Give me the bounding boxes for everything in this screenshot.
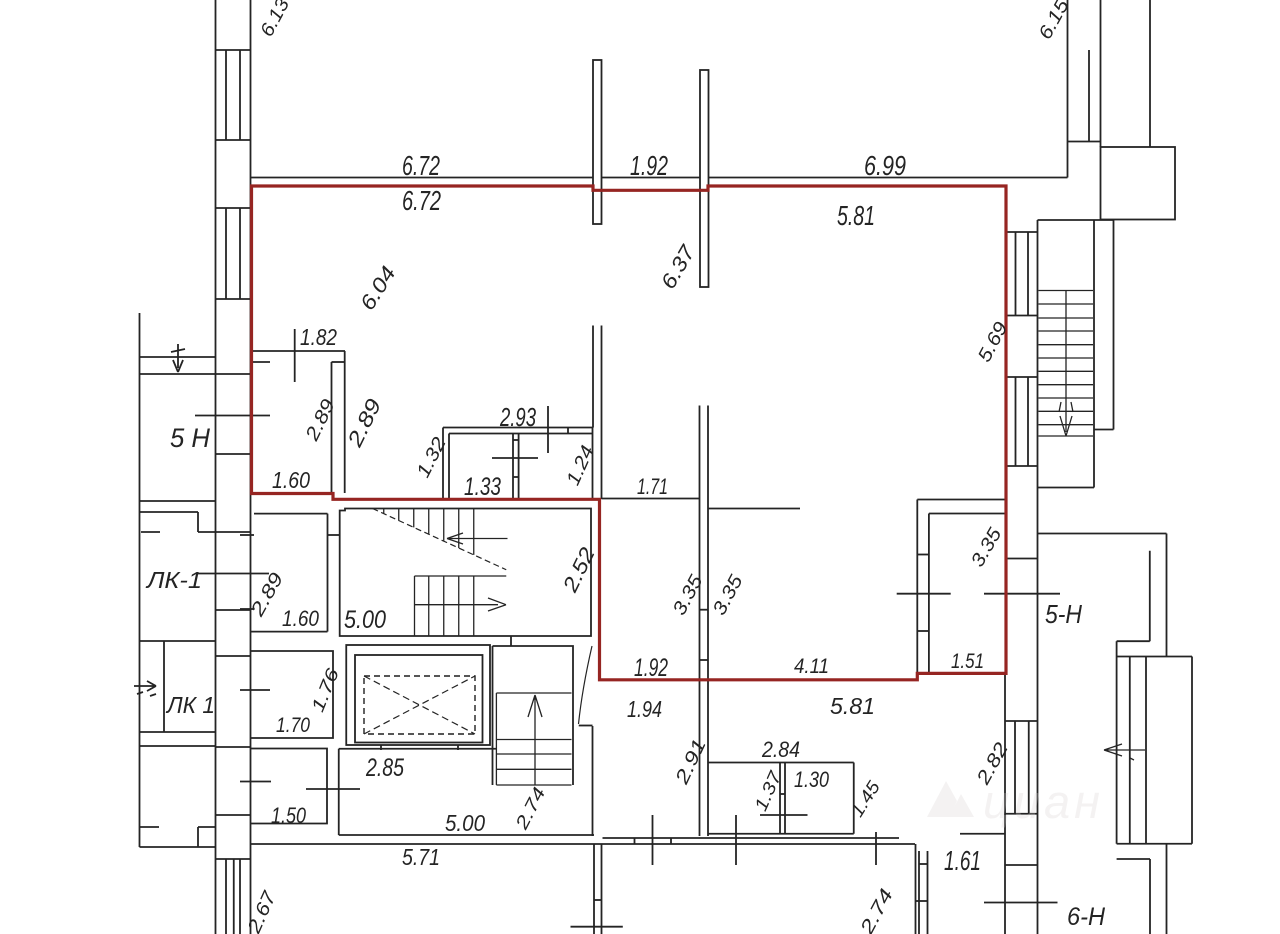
- LK-1 wall y512: [140, 511, 199, 513]
- vestibule east wall: [327, 514, 329, 632]
- outer wall x1067.5 top: [1067, 0, 1069, 178]
- wall cross joint y454: [216, 453, 251, 455]
- window W2 pane lines: [225, 208, 227, 299]
- stair lower arrow: [415, 598, 507, 611]
- room 1.82 east wall cap: [332, 361, 345, 363]
- svg-text:циан: циан: [983, 775, 1104, 828]
- wall x1150 top: [1149, 0, 1151, 147]
- svg-text:2.93: 2.93: [499, 402, 536, 432]
- dim tick x736: [735, 815, 737, 865]
- wall cross joint y656: [216, 655, 251, 657]
- door leaf line at 5-N entry: [195, 415, 270, 417]
- svg-text:6-Н: 6-Н: [1067, 903, 1106, 931]
- vestibule ticks: [240, 534, 254, 536]
- top wall segment C: [709, 177, 1068, 179]
- stair1 center rail with down arrow: [1059, 291, 1073, 437]
- partition pair x708: [707, 406, 709, 837]
- svg-text:5.81: 5.81: [830, 693, 875, 719]
- LK-1 leader line: [197, 573, 269, 575]
- stair1 left wall x1037.5: [1037, 220, 1039, 934]
- stair room outline: [340, 509, 591, 637]
- window RA caps: [1005, 231, 1038, 233]
- svg-text:2.84: 2.84: [761, 737, 800, 762]
- stair lower flight risers: [414, 576, 416, 636]
- wall bend x915.5: [915, 844, 917, 934]
- svg-text:4.11: 4.11: [794, 655, 829, 678]
- stair2 step y859: [1117, 858, 1150, 860]
- elevator outer box: [346, 645, 490, 745]
- elevator dashed cabin: [364, 676, 475, 734]
- svg-text:2.85: 2.85: [365, 754, 404, 782]
- wall pair x919/x927.5 bottom: [918, 851, 920, 934]
- right wall tick y558.5: [1005, 558, 1038, 560]
- LK-1 wall y746: [140, 745, 216, 747]
- dim leader y593.7: [897, 593, 951, 595]
- wall y498.5 west segment: [602, 498, 700, 500]
- small rooms east wall: [853, 763, 855, 834]
- wall pair x593 upper: [592, 326, 594, 428]
- elevator dashed diagonal 2: [364, 676, 475, 734]
- stair2 verticals: [1116, 657, 1118, 844]
- stair1 bottom cap y487.5: [1038, 487, 1095, 489]
- LK-1 wall y732: [140, 731, 216, 733]
- leader y833.75: [960, 833, 1005, 835]
- window RC panes: [1014, 721, 1016, 814]
- svg-text:6.99: 6.99: [864, 150, 906, 181]
- stair1 right wall x1094: [1093, 220, 1095, 488]
- partition stub P1: [593, 60, 602, 224]
- svg-text:1.82: 1.82: [300, 324, 337, 350]
- wall y656.5: [1117, 656, 1192, 658]
- cap y429.5: [1094, 429, 1114, 431]
- svg-text:1.70: 1.70: [276, 714, 310, 737]
- wall left inner edge: [250, 0, 252, 934]
- LK-1 tick y827: [140, 826, 160, 828]
- top wall segment B: [602, 177, 701, 179]
- room 2.85 bottom: [339, 834, 594, 836]
- wall left outer edge: [215, 0, 217, 934]
- elevator dashed diagonal 1: [364, 676, 475, 734]
- small rooms bottom: [708, 833, 854, 835]
- wall cross joint y815: [216, 814, 251, 816]
- stair3 inner left: [495, 693, 497, 785]
- leader y902.5: [984, 902, 1058, 904]
- wall cross joint y610: [216, 609, 251, 611]
- svg-text:5-Н: 5-Н: [1045, 599, 1082, 629]
- wall pair x594/x601.5 bottom: [593, 844, 595, 934]
- bottom wall joints: [634, 838, 636, 844]
- stair3 rail with up arrow: [528, 695, 542, 785]
- corridor wall y357: [140, 356, 216, 358]
- svg-text:5.71: 5.71: [402, 844, 440, 870]
- stair3 treads: [496, 692, 571, 694]
- wall x1089 top: [1088, 50, 1090, 142]
- wall x1116.6 upper: [1116, 641, 1118, 656]
- right wall inner edge lower part: [1004, 673, 1006, 934]
- stair1 top cap y220: [1038, 219, 1114, 221]
- window RB panes: [1015, 377, 1017, 466]
- stair lower flight top edge: [415, 575, 507, 577]
- LK-1 step bottom: [197, 827, 199, 847]
- bathroom west wall inner: [448, 434, 450, 500]
- entry arrow down: [171, 344, 185, 372]
- svg-text:5 Н: 5 Н: [170, 423, 210, 453]
- dim tick 2.93: [547, 406, 549, 453]
- vestibule bottom: [251, 631, 328, 633]
- wall pair x601.5 upper: [601, 326, 603, 500]
- svg-text:1.50: 1.50: [271, 803, 307, 828]
- room 1.51 west wall: [916, 500, 918, 674]
- room 1.51 outer top: [917, 499, 1005, 501]
- window W1 top cap: [216, 49, 251, 51]
- window W1 pane lines: [225, 50, 227, 140]
- room 1.50 outline: [251, 749, 327, 824]
- vestibule top: [254, 513, 328, 515]
- window RB caps: [1005, 376, 1038, 378]
- room 1.51 inner top: [929, 513, 1005, 515]
- wall y508.5 segment: [709, 508, 801, 510]
- stair2 bottom y843.75: [1117, 843, 1192, 845]
- stair3 outline: [493, 646, 574, 785]
- room 1.51 ticks: [917, 554, 929, 556]
- partition stub P2: [700, 70, 709, 287]
- bathroom inner top: [449, 433, 593, 435]
- room 1.82 east wall outer: [344, 351, 346, 493]
- LK-1 wall y641: [140, 640, 216, 642]
- bathroom east wall: [592, 428, 594, 500]
- bathroom west wall outer: [442, 428, 444, 500]
- leader y781.5: [240, 781, 271, 783]
- wall x1100.5 top: [1100, 0, 1102, 147]
- room 5-N west wall: [139, 313, 141, 847]
- svg-text:6.72: 6.72: [402, 150, 440, 181]
- room 2.85 east cap: [579, 725, 593, 727]
- svg-text:ЛК 1: ЛК 1: [165, 692, 215, 718]
- door arc: [579, 646, 593, 724]
- stair2 wall x1166.5 bottom: [1166, 844, 1168, 934]
- wall x1166.5: [1166, 534, 1168, 657]
- svg-text:6.72: 6.72: [402, 185, 441, 216]
- bathroom mid wall ticks: [513, 439, 519, 441]
- LK-1 divider x164: [163, 641, 165, 732]
- bottom wall y844: [251, 843, 915, 845]
- watermark logo: [927, 775, 1104, 828]
- dim leader y458: [492, 457, 538, 459]
- LK-1 wall y847 bottom: [140, 846, 216, 848]
- svg-text:5.00: 5.00: [445, 810, 485, 836]
- dim tick y815: [760, 814, 808, 816]
- red unit boundary: [252, 186, 1007, 680]
- stair2 wall x1150 bottom: [1149, 859, 1151, 934]
- svg-text:ЛК-1: ЛК-1: [145, 567, 202, 593]
- bathroom outer top: [443, 427, 593, 429]
- dim tick x652.5: [652, 815, 654, 865]
- room 1.82 inner top: [251, 361, 271, 363]
- stair1 treads: [1039, 290, 1094, 292]
- outer wall x1113.5: [1113, 220, 1115, 430]
- svg-text:5.00: 5.00: [344, 606, 386, 634]
- dim tick 1.82: [294, 329, 296, 382]
- room 2.85 west wall: [338, 749, 340, 835]
- LK-1 wall y501: [140, 500, 216, 502]
- wall cross joint y532: [216, 531, 251, 533]
- svg-text:1.92: 1.92: [630, 150, 668, 181]
- svg-text:1.30: 1.30: [794, 767, 830, 792]
- bottom tick y926.7: [571, 926, 623, 928]
- room 2.85 top: [339, 748, 496, 750]
- room 1.82 top wall: [251, 350, 346, 352]
- svg-text:1.71: 1.71: [637, 474, 668, 499]
- small rooms divider tick: [780, 793, 785, 795]
- window W2 top cap: [216, 207, 251, 209]
- bathroom mid wall pair: [512, 434, 514, 500]
- svg-text:1.61: 1.61: [944, 845, 981, 876]
- cap y141.5: [1068, 141, 1101, 143]
- stair cut diagonal: [373, 509, 507, 570]
- svg-text:5.81: 5.81: [837, 200, 875, 231]
- top wall segment A: [251, 177, 594, 179]
- window W2 bottom cap: [216, 298, 251, 300]
- small rooms divider pair: [779, 763, 781, 834]
- dim tick x876: [875, 832, 877, 865]
- window W3 top cap: [216, 858, 251, 860]
- room 1.70 outline: [251, 651, 333, 738]
- wall y641.2: [1117, 640, 1150, 642]
- tick y900: [594, 899, 602, 901]
- pair ticks bottom right: [919, 863, 928, 865]
- LK-1 door arrow: [134, 681, 156, 696]
- elevator tabs: [380, 745, 382, 750]
- stair2 door arrow: [1104, 744, 1145, 760]
- stair upper flight risers: [383, 509, 385, 514]
- room 2.85 east wall: [592, 726, 594, 836]
- partition pair ticks: [700, 609, 709, 611]
- svg-text:1.51: 1.51: [951, 650, 984, 673]
- bottom wall y838: [603, 837, 900, 839]
- top-right box: [1101, 147, 1176, 220]
- LK-1 tick y532: [141, 531, 160, 533]
- wall x1149.8: [1149, 551, 1151, 642]
- room 5-N top y533.5: [1038, 533, 1167, 535]
- svg-text:1.60: 1.60: [282, 606, 320, 631]
- right wall cross y865: [1005, 864, 1038, 866]
- window W1 bottom cap: [216, 139, 251, 141]
- elevator inner box: [355, 655, 483, 743]
- stair3 connector: [510, 636, 512, 646]
- LK-1 step x198: [197, 512, 199, 532]
- leader y789: [306, 788, 360, 790]
- wall cross joint y374: [216, 373, 251, 375]
- svg-text:1.60: 1.60: [272, 467, 310, 493]
- svg-text:1.33: 1.33: [464, 473, 501, 501]
- wall cross joint y747: [216, 746, 251, 748]
- small rooms top y762.5: [708, 762, 854, 764]
- window W3 pane lines: [225, 859, 227, 934]
- window RC caps: [1005, 720, 1038, 722]
- bathroom top notch x568: [567, 428, 569, 434]
- room 1.82 east wall inner: [331, 362, 333, 493]
- window RA panes: [1015, 232, 1017, 316]
- stair upper arrow: [447, 533, 508, 544]
- partition pair x699.5: [699, 406, 701, 837]
- room 1.51 inner west wall: [928, 514, 930, 674]
- svg-text:1.92: 1.92: [634, 654, 668, 682]
- svg-text:1.94: 1.94: [627, 696, 662, 722]
- leader y690: [240, 689, 270, 691]
- corridor wall y374: [140, 373, 216, 375]
